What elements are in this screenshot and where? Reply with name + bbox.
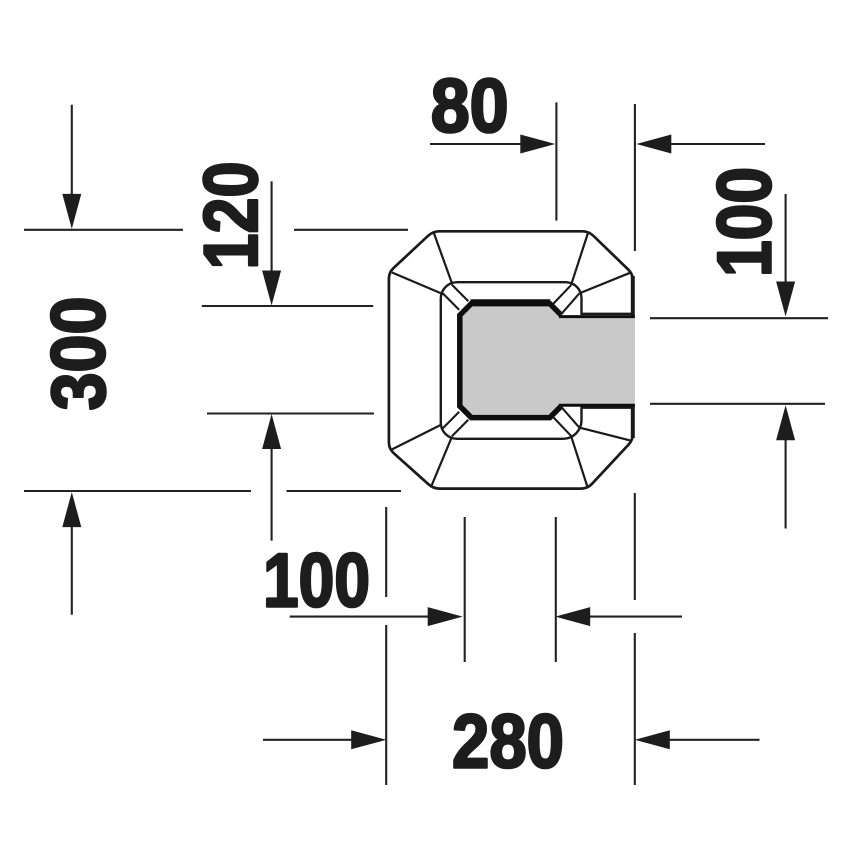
svg-text:300: 300 — [37, 297, 122, 411]
svg-text:100: 100 — [263, 539, 370, 624]
svg-text:120: 120 — [189, 162, 274, 270]
svg-text:100: 100 — [703, 167, 788, 277]
svg-text:280: 280 — [452, 700, 564, 785]
svg-text:80: 80 — [431, 64, 509, 149]
